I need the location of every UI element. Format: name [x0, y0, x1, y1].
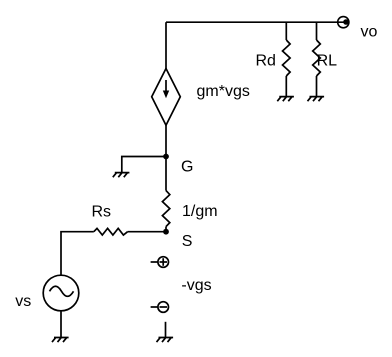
dependent current source U1 gm*vgs (diamond) — [152, 69, 181, 126]
ground under RL — [308, 97, 325, 102]
node G junction dot — [163, 154, 169, 160]
wire resistor 1/gm to node S — [165, 227, 167, 232]
wire from top rail down to resistor Rd — [285, 22, 287, 40]
voltage source vs (sine) — [43, 275, 79, 311]
resistor Rs — [94, 228, 128, 235]
wire from top rail down to resistor RL — [316, 22, 318, 40]
polarity marker minus (-) of vgs — [151, 302, 169, 313]
svg-text:vo: vo — [361, 24, 378, 41]
wire node S to resistor Rs — [128, 231, 166, 233]
resistor RL — [313, 40, 321, 76]
svg-text:vs: vs — [15, 293, 31, 310]
svg-text:1/gm: 1/gm — [182, 203, 218, 220]
ground under Rd — [277, 97, 294, 102]
polarity marker plus (+) of vgs — [151, 257, 169, 268]
output port vo terminal circle — [338, 17, 349, 28]
node S junction dot — [163, 229, 169, 235]
svg-text:Rs: Rs — [92, 203, 112, 220]
wire from top rail down to current source — [165, 22, 167, 68]
wire resistor Rd to ground — [285, 76, 287, 97]
wire stub to bottom ground — [165, 322, 167, 338]
resistor Rd — [283, 40, 291, 76]
svg-text:S: S — [182, 233, 193, 250]
ground at gate — [113, 173, 130, 178]
wire current source to node G — [165, 125, 167, 156]
svg-text:gm*vgs: gm*vgs — [197, 83, 250, 100]
svg-text:-vgs: -vgs — [181, 277, 211, 294]
ground at bottom center — [157, 338, 174, 343]
wire node G to gate ground — [122, 157, 166, 173]
wire node G to resistor 1/gm — [165, 157, 167, 191]
wire resistor Rs to source vs — [61, 232, 94, 275]
svg-text:Rd: Rd — [256, 53, 276, 70]
svg-text:G: G — [181, 159, 193, 176]
resistor 1/gm — [162, 191, 169, 227]
wire resistor RL to ground — [316, 76, 318, 97]
wire top rail — [166, 21, 346, 23]
wire vs to ground — [60, 311, 62, 338]
node vo junction dot — [343, 19, 349, 25]
svg-text:RL: RL — [317, 53, 338, 70]
ground under vs — [52, 338, 69, 343]
